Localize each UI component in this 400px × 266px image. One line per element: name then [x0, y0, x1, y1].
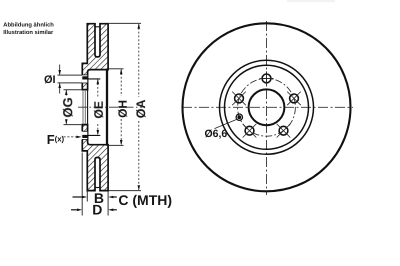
- bolt hole upper right: [287, 92, 301, 106]
- bolt hole lower left: [243, 124, 257, 138]
- bolt hole top: [259, 71, 273, 85]
- center bore: [249, 89, 285, 125]
- horizontal centerline: [182, 106, 353, 108]
- svg-text:F: F: [47, 132, 55, 147]
- vertical centerline: [266, 21, 268, 195]
- svg-text:ØA: ØA: [134, 100, 148, 119]
- svg-text:ØH: ØH: [116, 100, 130, 118]
- dimension B arrows: [73, 196, 82, 198]
- section axis centerline: [78, 106, 142, 108]
- bore chamfer line 2: [84, 91, 86, 123]
- bolt hole gap in flange bottom: [81, 131, 87, 139]
- bolt hole axis line bottom: [82, 134, 100, 136]
- leader line Ø6,6: [215, 119, 238, 128]
- bolt hole upper left: [232, 92, 246, 106]
- vent slot vane line: [95, 26, 100, 28]
- bolt hole lower right: [277, 124, 291, 138]
- dimension ØA line: [138, 24, 140, 190]
- outer circle ØA: [183, 23, 351, 191]
- friction ring and hat solid bottom (section hatched): [82, 125, 108, 191]
- bore chamfer line 1: [82, 91, 84, 123]
- bottom extension line at friction left: [86, 192, 88, 202]
- F(x) leader arrow: [64, 136, 77, 138]
- ØA extension lines: [109, 22, 141, 24]
- svg-text:ØI: ØI: [44, 74, 56, 86]
- svg-text:C (MTH): C (MTH): [118, 192, 172, 208]
- hat inner circle: [225, 65, 309, 149]
- svg-text:Illustration similar: Illustration similar: [3, 29, 54, 36]
- ØH extension lines: [109, 68, 124, 70]
- hat outboard face thick line: [106, 69, 108, 146]
- bottom extension line at right face: [107, 192, 109, 216]
- friction ring and hat solid (section hatched): [82, 24, 108, 90]
- bore edge bottom (thick): [82, 124, 87, 126]
- dimension ØH line: [120, 69, 122, 145]
- bolt hole gap in flange: [81, 75, 87, 83]
- locating hole Ø6,6: [236, 114, 242, 120]
- vent slot vane line bottom: [95, 187, 100, 189]
- bolt hole axis line: [82, 78, 100, 80]
- disc body section bottom half (mirror): [81, 125, 108, 191]
- bolt hole edge lines: [82, 74, 88, 76]
- bolt hole edge lines bottom: [82, 138, 88, 140]
- svg-text:ØE: ØE: [92, 101, 106, 119]
- disc body section top half: [81, 24, 108, 90]
- dimension D arrows: [71, 209, 77, 211]
- svg-text:Ø6,6: Ø6,6: [205, 128, 228, 140]
- bore edge (thick): [82, 89, 87, 91]
- dimension ØE line: [97, 79, 99, 135]
- svg-text:(x): (x): [55, 135, 65, 144]
- interior left edge through bore: [87, 90, 89, 125]
- svg-text:ØG: ØG: [60, 97, 75, 117]
- bolt circle (dash-dot): [238, 78, 296, 136]
- ØG extension lines: [64, 89, 83, 91]
- svg-text:D: D: [92, 201, 102, 217]
- hat outer circle: [220, 60, 314, 154]
- dimension ØI arrows: [59, 65, 61, 94]
- ØI extension lines: [58, 74, 83, 76]
- bottom extension line at mounting face: [81, 153, 83, 216]
- dimension ØG arrows: [65, 90, 67, 124]
- svg-text:Abbildung ähnlich: Abbildung ähnlich: [3, 21, 54, 28]
